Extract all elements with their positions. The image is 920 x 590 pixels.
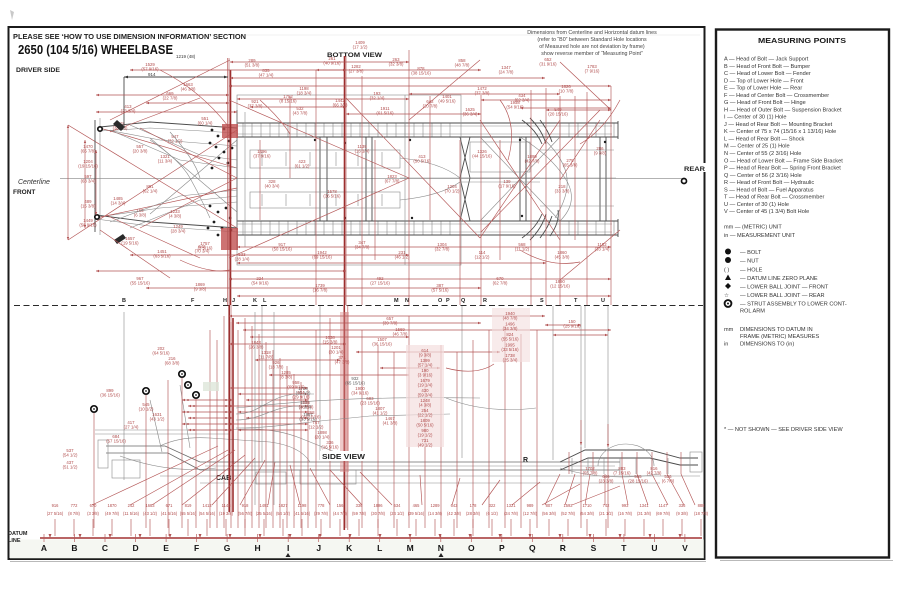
svg-text:S: S [591, 543, 597, 553]
svg-text:(41 3/8): (41 3/8) [383, 421, 398, 426]
x-brace front [150, 138, 237, 212]
svg-text:914: 914 [148, 72, 156, 77]
side-view rear red verticals below rail [568, 452, 570, 474]
bottom-view extra red verticals short [259, 140, 261, 220]
svg-text:888: 888 [698, 503, 706, 508]
svg-text:(6 1/2): (6 1/2) [486, 511, 498, 516]
svg-text:DIMENSIONS TO (in): DIMENSIONS TO (in) [740, 342, 794, 348]
svg-text:Centerline: Centerline [18, 179, 50, 186]
svg-text:(14 3/4): (14 3/4) [111, 201, 126, 206]
front frame horn upper [100, 122, 237, 128]
svg-text:670: 670 [90, 503, 98, 508]
svg-text:(17 1/2): (17 1/2) [353, 45, 368, 50]
svg-text:(31 3/8): (31 3/8) [637, 511, 652, 516]
svg-text:1683: 1683 [145, 503, 155, 508]
fuel tank outline [470, 142, 530, 172]
svg-text:T — Head of Rear Bolt — Crossm: T — Head of Rear Bolt — Crossmember [724, 195, 824, 201]
svg-text:(49 5/16): (49 5/16) [438, 99, 456, 104]
svg-text:(9 3/8): (9 3/8) [194, 287, 207, 292]
svg-text:Dimensions from Centerline and: Dimensions from Centerline and Horizonta… [527, 30, 657, 36]
svg-text:(63 3/4): (63 3/4) [81, 179, 96, 184]
datum line [10, 540, 704, 559]
svg-text:R — Head of Front Bolt — Hydra: R — Head of Front Bolt — Hydraulic [724, 180, 814, 186]
top horizontal dimension lines [230, 61, 409, 63]
svg-text:Q — Center of 56 (2 3/16) Hole: Q — Center of 56 (2 3/16) Hole [724, 173, 802, 179]
svg-text:(30 1/4): (30 1/4) [329, 350, 344, 355]
svg-text:L — Head of Rear Bolt — Shock: L — Head of Rear Bolt — Shock [724, 136, 805, 142]
bolt point dots upper cluster [211, 129, 214, 132]
svg-text:K: K [253, 298, 257, 304]
svg-text:(44 7/8): (44 7/8) [333, 511, 348, 516]
svg-text:— LOWER BALL JOINT — REAR: — LOWER BALL JOINT — REAR [740, 293, 825, 299]
svg-text:U: U [651, 543, 657, 553]
svg-text:H: H [223, 298, 227, 304]
svg-text:(19 1/2): (19 1/2) [418, 433, 433, 438]
frame rail right (bottom of bottom view) [237, 220, 618, 222]
crossmember 4 (x-member) [460, 137, 470, 221]
svg-text:(3 3/8): (3 3/8) [87, 511, 99, 516]
spare tire crossbars [540, 149, 614, 151]
bottom-view horizontal dims above rails [237, 98, 409, 100]
svg-text:(19 15/16): (19 15/16) [78, 164, 98, 169]
svg-text:(69 9/16): (69 9/16) [287, 385, 305, 390]
svg-text:— STRUT ASSEMBLY TO LOWER CONT: — STRUT ASSEMBLY TO LOWER CONT- [740, 302, 847, 308]
svg-text:(25 3/4): (25 3/4) [503, 358, 518, 363]
side-view rear grey projection verticals [552, 306, 554, 460]
svg-text:DATUM: DATUM [8, 531, 28, 537]
side-view top horizontal dims [229, 315, 545, 317]
svg-text:R: R [523, 457, 528, 464]
red hatch marker upper rail [222, 124, 238, 138]
svg-text:(23 3/8): (23 3/8) [599, 479, 614, 484]
svg-text:(19 3/8): (19 3/8) [219, 511, 234, 516]
svg-text:(41 15/16): (41 15/16) [301, 415, 321, 420]
svg-text:(43 7/8): (43 7/8) [293, 111, 308, 116]
svg-text:(27 5/16): (27 5/16) [47, 511, 64, 516]
svg-text:(51 1/2): (51 1/2) [63, 465, 78, 470]
svg-text:(39 5/16): (39 5/16) [408, 511, 425, 516]
svg-text:D — Top of Lower Hole — Front: D — Top of Lower Hole — Front [724, 78, 804, 84]
side-view grey projection verticals [319, 306, 321, 460]
svg-text:(12 7/8): (12 7/8) [523, 511, 538, 516]
svg-text:(62 1/4): (62 1/4) [143, 189, 158, 194]
svg-text:— HOLE: — HOLE [740, 268, 763, 274]
rail hatch ticks top [242, 124, 244, 137]
svg-text:2650 (104 5/16) WHEELBASE: 2650 (104 5/16) WHEELBASE [18, 43, 173, 57]
fuel tank side [300, 470, 356, 484]
svg-text:(7 15/16): (7 15/16) [613, 471, 631, 476]
svg-text:(11 7/8): (11 7/8) [259, 355, 274, 360]
side-view red labels stack x510 [492, 308, 530, 362]
svg-text:(25 9/16): (25 9/16) [563, 324, 581, 329]
datum arrowheads [49, 534, 52, 538]
svg-text:MEASURING POINTS: MEASURING POINTS [758, 36, 846, 45]
svg-text:(65 7/8): (65 7/8) [81, 149, 96, 154]
svg-text:(50 15/16): (50 15/16) [272, 247, 292, 252]
side-view rear short dims [545, 324, 581, 326]
crossmember 5 [519, 137, 521, 221]
svg-text:336: 336 [679, 503, 687, 508]
svg-text:(8 15/16): (8 15/16) [279, 99, 297, 104]
rear axle diagonal braces [480, 137, 560, 221]
front bumper side [98, 440, 108, 468]
svg-text:(27 1/4): (27 1/4) [124, 425, 139, 430]
svg-text:(43 1/2): (43 1/2) [143, 511, 158, 516]
svg-text:P: P [499, 543, 505, 553]
front crossmember / suspension mount [236, 110, 238, 250]
rear kickup [560, 450, 698, 462]
bottom-view leader curves [160, 70, 228, 126]
strut donut markers [91, 406, 97, 412]
svg-text:(4 3/8): (4 3/8) [169, 214, 182, 219]
side-view label stack halo x425 [406, 345, 444, 447]
svg-text:(58 9/16): (58 9/16) [79, 223, 97, 228]
svg-text:N — Center of 55 (2 3/16) Hole: N — Center of 55 (2 3/16) Hole [724, 151, 801, 157]
legend panel border [716, 30, 889, 558]
red heavy vertical band x346 [344, 56, 346, 305]
bottom-view extra diagonals [229, 100, 409, 178]
svg-text:(62 7/8): (62 7/8) [493, 281, 508, 286]
svg-text:(57 9/16): (57 9/16) [141, 67, 159, 72]
driveshaft line [400, 177, 616, 179]
svg-text:993: 993 [622, 503, 630, 508]
svg-text:(54 5/16): (54 5/16) [199, 511, 216, 516]
svg-text:(24 7/8): (24 7/8) [499, 70, 514, 75]
svg-text:(7 9/16): (7 9/16) [585, 69, 600, 74]
svg-text:(20 7/8): (20 7/8) [423, 104, 438, 109]
svg-text:(66 3/4): (66 3/4) [333, 103, 348, 108]
black dim line upper-left [124, 76, 228, 78]
svg-text:I — Center of 30 (1) Hole: I — Center of 30 (1) Hole [724, 115, 787, 121]
svg-text:1143: 1143 [222, 503, 232, 508]
svg-text:465: 465 [413, 503, 421, 508]
svg-text:(8 3/8): (8 3/8) [280, 375, 293, 380]
datum tick marks [54, 519, 56, 536]
svg-text:(42 7/8): (42 7/8) [525, 159, 540, 164]
svg-text:T: T [621, 543, 627, 553]
side rail inner line [205, 465, 615, 467]
bolt dots mid rail [314, 139, 316, 141]
svg-text:1870: 1870 [107, 503, 117, 508]
svg-text:(22 7/8): (22 7/8) [163, 96, 178, 101]
suspension arm diagonals lower [110, 190, 237, 222]
shock absorbers [150, 400, 162, 452]
svg-text:(11 3/4): (11 3/4) [158, 159, 173, 164]
svg-text:LINE: LINE [8, 538, 21, 544]
svg-text:(34 9/16): (34 9/16) [351, 391, 369, 396]
svg-text:(55 5/16): (55 5/16) [180, 511, 197, 516]
svg-text:(20 1/4): (20 1/4) [315, 435, 330, 440]
svg-text:(9 3/8): (9 3/8) [594, 151, 607, 156]
svg-text:(4 3/8): (4 3/8) [419, 403, 432, 408]
front horn tip dark knobs [113, 120, 125, 131]
svg-text:(46 1/2): (46 1/2) [395, 255, 410, 260]
svg-text:(3 9/16): (3 9/16) [418, 373, 433, 378]
side-view leader fan to datum [92, 446, 218, 505]
svg-text:(59 3/4): (59 3/4) [418, 393, 433, 398]
svg-text:(59 7/8): (59 7/8) [352, 511, 367, 516]
svg-text:671: 671 [166, 503, 174, 508]
side rail bottom line [200, 469, 620, 471]
svg-text:(57 1/4): (57 1/4) [418, 363, 433, 368]
side-view grey projection verticals 2 [254, 312, 256, 505]
svg-text:(49 7/8): (49 7/8) [105, 511, 120, 516]
svg-text:DIMENSIONS TO DATUM IN: DIMENSIONS TO DATUM IN [740, 327, 813, 333]
svg-text:(38 15/16): (38 15/16) [411, 71, 431, 76]
svg-text:(12 15/16): (12 15/16) [550, 284, 570, 289]
svg-text:* — NOT SHOWN — SEE DRIVER SID: * — NOT SHOWN — SEE DRIVER SIDE VIEW [724, 427, 843, 433]
svg-text:(40 3/4): (40 3/4) [265, 184, 280, 189]
svg-text:in — MEASUREMENT UNIT: in — MEASUREMENT UNIT [724, 233, 796, 239]
svg-text:(46 7/8): (46 7/8) [393, 332, 408, 337]
small black triangles under letters [286, 553, 291, 557]
svg-text:(55 5/16): (55 5/16) [501, 337, 519, 342]
front bumper bar [94, 120, 96, 232]
svg-text:(68 3/8): (68 3/8) [165, 361, 180, 366]
svg-text:H — Head of Outer Bolt — Suspe: H — Head of Outer Bolt — Suspension Brac… [724, 107, 842, 113]
svg-text:(39 7/8): (39 7/8) [383, 321, 398, 326]
svg-text:(27 3/8): (27 3/8) [349, 69, 364, 74]
svg-text:(34 7/8): (34 7/8) [355, 245, 370, 250]
svg-text:807: 807 [546, 503, 554, 508]
svg-text:(17 9/16): (17 9/16) [498, 184, 516, 189]
svg-text:(70 3/4): (70 3/4) [195, 249, 210, 254]
svg-text:(9 3/8): (9 3/8) [676, 511, 688, 516]
svg-text:(54 3/8): (54 3/8) [580, 511, 595, 516]
svg-text:178: 178 [470, 503, 478, 508]
svg-text:(63 5/16): (63 5/16) [153, 254, 171, 259]
svg-text:(12 1/2): (12 1/2) [309, 425, 324, 430]
svg-text:ROL ARM: ROL ARM [740, 309, 765, 315]
svg-text:(29 7/8): (29 7/8) [314, 511, 329, 516]
bottom-view diagonal dim lines [110, 60, 230, 120]
svg-text:(31 9/16): (31 9/16) [539, 62, 557, 67]
svg-text:C — Head of Lower Bolt — Fende: C — Head of Lower Bolt — Fender [724, 71, 811, 77]
svg-text:(24 1/2): (24 1/2) [390, 511, 405, 516]
svg-text:B — Head of Front Bolt — Bumpe: B — Head of Front Bolt — Bumper [724, 64, 810, 70]
svg-text:1710: 1710 [582, 503, 592, 508]
svg-text:N: N [405, 298, 409, 304]
svg-text:in: in [724, 342, 728, 348]
svg-text:1321: 1321 [506, 503, 516, 508]
svg-text:1147: 1147 [659, 503, 669, 508]
svg-text:(28 15/16): (28 15/16) [628, 479, 648, 484]
svg-text:(16 7/8): (16 7/8) [618, 511, 633, 516]
side rail lower flange lines [160, 475, 700, 477]
svg-text:772: 772 [71, 503, 79, 508]
svg-text:156: 156 [337, 503, 345, 508]
svg-text:(10 1/2): (10 1/2) [139, 407, 154, 412]
legend symbol nut [725, 257, 731, 263]
svg-text:(42 3/8): (42 3/8) [447, 511, 462, 516]
svg-text:(32 3/8): (32 3/8) [389, 62, 404, 67]
svg-text:(9 3/8): (9 3/8) [419, 353, 432, 358]
engine mount marks [261, 152, 263, 166]
svg-text:I: I [287, 543, 289, 553]
svg-text:U — Center of 30 (1) Hole: U — Center of 30 (1) Hole [724, 202, 789, 208]
svg-text:J: J [232, 298, 235, 304]
svg-text:(49 1/2): (49 1/2) [418, 443, 433, 448]
svg-text:N: N [438, 543, 444, 553]
svg-text:(43 1/2): (43 1/2) [150, 417, 165, 422]
svg-text:989: 989 [527, 503, 535, 508]
side view small boxes [112, 460, 140, 478]
centerline of bottom view [60, 178, 684, 180]
rear wheel arch [598, 444, 654, 466]
side-view heavy red band x230 [228, 305, 230, 512]
svg-text:DRIVER SIDE: DRIVER SIDE [16, 67, 61, 74]
bottom letter ticks [43, 534, 45, 542]
svg-text:(32 7/8): (32 7/8) [435, 247, 450, 252]
svg-text:mm: mm [724, 327, 734, 333]
svg-text:(69 15/16): (69 15/16) [312, 255, 332, 260]
svg-text:(54 9/16): (54 9/16) [251, 281, 269, 286]
faint scan line under top border [12, 34, 700, 36]
svg-text:(55 15/16): (55 15/16) [130, 281, 150, 286]
svg-text:Q: Q [461, 298, 466, 304]
legend symbol lower ball joint front [725, 283, 731, 289]
svg-text:916: 916 [52, 503, 60, 508]
svg-text:(18 7/8): (18 7/8) [269, 365, 284, 370]
side-view leader curves right [446, 364, 494, 371]
svg-text:(33 5/16): (33 5/16) [501, 347, 519, 352]
svg-text:(26 3/8): (26 3/8) [249, 345, 264, 350]
svg-text:742: 742 [603, 503, 611, 508]
engine crossmember box [250, 150, 400, 168]
side-view mid horizontal dims [356, 351, 500, 353]
svg-text:(19 1/4): (19 1/4) [418, 383, 433, 388]
svg-text:(67 7/8): (67 7/8) [385, 179, 400, 184]
svg-text:K: K [346, 543, 353, 553]
svg-text:SIDE VIEW: SIDE VIEW [322, 454, 365, 461]
crossmember 6 [599, 137, 601, 221]
svg-text:(37 3/8): (37 3/8) [248, 104, 263, 109]
svg-text:O: O [438, 298, 443, 304]
svg-text:R: R [560, 543, 566, 553]
svg-text:of Measured hole are not devia: of Measured hole are not deviation by fr… [539, 44, 645, 50]
svg-text:K — Center of 75 x 74 (15/16 x: K — Center of 75 x 74 (15/16 x 1 13/16) … [724, 129, 836, 135]
svg-text:(52 7/8): (52 7/8) [561, 511, 576, 516]
svg-text:(11 1/2): (11 1/2) [515, 247, 530, 252]
red vertical grid bottom-view [228, 58, 230, 305]
crossmember 2 [319, 137, 321, 221]
front frame horn lower [96, 215, 237, 228]
svg-text:E: E [163, 543, 169, 553]
svg-text:(28 3/4): (28 3/4) [171, 229, 186, 234]
svg-text:(50 5/16): (50 5/16) [413, 159, 431, 164]
side-view rear fan to datum [545, 474, 560, 505]
svg-text:(8 7/8): (8 7/8) [68, 511, 80, 516]
svg-text:(47 3/8): (47 3/8) [335, 360, 350, 365]
svg-text:(11 5/16): (11 5/16) [123, 511, 140, 516]
svg-text:(61 1/2): (61 1/2) [295, 164, 310, 169]
svg-text:(34 3/8): (34 3/8) [503, 326, 518, 331]
svg-text:M — Center of 25 (1) Hole: M — Center of 25 (1) Hole [724, 144, 790, 150]
svg-text:242: 242 [128, 503, 136, 508]
svg-text:(19 5/16): (19 5/16) [121, 241, 139, 246]
svg-text:(29 9/16): (29 9/16) [292, 395, 310, 400]
svg-text:(57 5/16): (57 5/16) [431, 288, 449, 293]
svg-text:Q: Q [529, 543, 536, 553]
svg-text:M: M [407, 543, 414, 553]
svg-text:(55 7/8): (55 7/8) [583, 471, 598, 476]
svg-text:(37 3/8): (37 3/8) [475, 91, 490, 96]
svg-text:(16 7/8): (16 7/8) [313, 288, 328, 293]
svg-text:mm — (METRIC) UNIT: mm — (METRIC) UNIT [724, 225, 782, 231]
rear suspension dark cluster lower [522, 210, 558, 240]
svg-text:(23 15/16): (23 15/16) [360, 401, 380, 406]
rail hatch ticks bottom [242, 222, 244, 235]
svg-text:(64 5/16): (64 5/16) [152, 351, 170, 356]
separator dashed line between views [14, 305, 703, 307]
svg-text:(36 15/16): (36 15/16) [100, 393, 120, 398]
svg-text:(45 3/8): (45 3/8) [555, 255, 570, 260]
legend symbol datum triangle [725, 275, 731, 281]
svg-text:C: C [102, 543, 108, 553]
svg-text:(48 7/8): (48 7/8) [455, 63, 470, 68]
drawing sheet border [9, 27, 705, 559]
label: rear [683, 163, 706, 172]
svg-text:(41 1/2): (41 1/2) [373, 411, 388, 416]
left vertical dims [67, 125, 69, 240]
svg-text:(30 7/8): (30 7/8) [371, 511, 386, 516]
cab floor shapes [160, 438, 310, 462]
svg-text:O: O [468, 543, 475, 553]
svg-text:S: S [540, 298, 544, 304]
svg-text:1341: 1341 [639, 503, 649, 508]
svg-text:— BOLT: — BOLT [740, 250, 762, 256]
svg-text:(12 1/2): (12 1/2) [475, 255, 490, 260]
centerline end circle [682, 179, 687, 184]
svg-text:(36 5/16): (36 5/16) [323, 194, 341, 199]
svg-text:322: 322 [489, 503, 497, 508]
transmission tunnel lines [400, 158, 540, 178]
svg-text:(27 15/16): (27 15/16) [370, 281, 390, 286]
bolt point dots lower cluster [209, 205, 212, 208]
svg-text:☆: ☆ [724, 292, 729, 299]
label: side view [320, 451, 367, 461]
svg-text:V — Center of 45 (1 3/4) Bolt: V — Center of 45 (1 3/4) Bolt Hole [724, 209, 809, 215]
svg-text:(28 1/4): (28 1/4) [235, 257, 250, 262]
svg-text:(10 7/8): (10 7/8) [559, 89, 574, 94]
rear bumper hitch [690, 452, 702, 472]
svg-text:J: J [316, 543, 321, 553]
svg-text:(60 1/4): (60 1/4) [198, 121, 213, 126]
svg-text:(36 3/4): (36 3/4) [463, 112, 478, 117]
svg-text:PLEASE SEE ‘HOW TO USE DIMENSI: PLEASE SEE ‘HOW TO USE DIMENSION INFORMA… [13, 34, 246, 41]
svg-text:(70 1/2): (70 1/2) [445, 189, 460, 194]
side-view red verticals [93, 413, 95, 528]
svg-text:(65 3/8): (65 3/8) [563, 163, 578, 168]
svg-text:L: L [377, 543, 382, 553]
svg-text:634: 634 [394, 503, 402, 508]
svg-text:(54 1/2): (54 1/2) [276, 511, 291, 516]
svg-text:show reverse member of “Measur: show reverse member of “Measuring Point” [541, 51, 643, 57]
svg-text:(56 3/8): (56 3/8) [542, 511, 557, 516]
svg-text:1198: 1198 [298, 503, 308, 508]
svg-text:819: 819 [185, 503, 193, 508]
svg-text:B: B [71, 543, 77, 553]
svg-text:(47 1/4): (47 1/4) [259, 73, 274, 78]
svg-text:U: U [601, 298, 605, 304]
svg-text:(16 5/16): (16 5/16) [321, 445, 339, 450]
side rail top line [200, 461, 620, 463]
svg-text:G: G [224, 543, 231, 553]
svg-text:P — Head of Rear Bolt — Spring: P — Head of Rear Bolt — Spring Front Bra… [724, 166, 841, 172]
svg-text:FRAME (METRIC) MEASURES: FRAME (METRIC) MEASURES [740, 334, 820, 340]
front horn tip circles [98, 127, 102, 131]
svg-text:(50 5/16): (50 5/16) [416, 423, 434, 428]
